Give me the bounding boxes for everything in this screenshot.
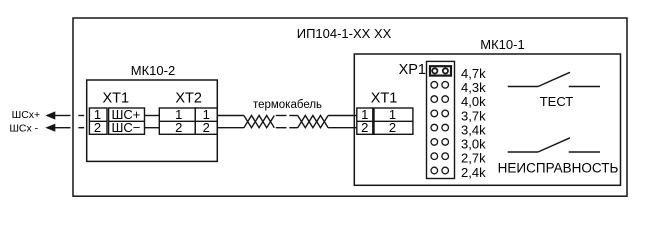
svg-text:2: 2: [361, 120, 368, 135]
module box МК10-2: [87, 80, 218, 161]
jumper header block ХР1: [427, 61, 455, 178]
dashed cable break top: [276, 115, 287, 117]
connector ХТ2 left column: [159, 108, 195, 134]
svg-text:3,0k: 3,0k: [461, 137, 486, 152]
switch НЕИСПРАВНОСТЬ left contact: [508, 151, 538, 153]
switch ТЕСТ left contact: [508, 86, 538, 88]
header pins row 8: [431, 167, 438, 174]
wire ШС+ to ХТ2 row1: [145, 115, 160, 117]
twisted pair section 2 line A: [298, 116, 328, 128]
svg-text:2: 2: [203, 120, 210, 135]
header pins row 2: [431, 82, 438, 89]
switch ТЕСТ right contact: [569, 86, 600, 88]
twisted pair section 1 line B: [244, 116, 274, 128]
svg-text:2: 2: [175, 120, 182, 135]
wire ШСх+ boundary dash: [78, 115, 84, 117]
svg-text:3,7k: 3,7k: [461, 108, 486, 123]
svg-text:2,7k: 2,7k: [461, 151, 486, 166]
svg-text:4,3k: 4,3k: [461, 80, 486, 95]
header pins row 3: [431, 96, 438, 103]
outer enclosure box ИП104-1-XX XX: [73, 18, 627, 196]
svg-text:ХТ1: ХТ1: [371, 90, 398, 106]
connector ХТ2 right column: [195, 108, 217, 134]
svg-text:МК10-1: МК10-1: [480, 37, 524, 52]
svg-text:3,4k: 3,4k: [461, 122, 486, 137]
svg-text:2,4k: 2,4k: [461, 165, 486, 180]
svg-text:2: 2: [94, 120, 101, 135]
header pins row 4: [431, 110, 438, 117]
connector ХТ1 pin-number column (МК10-2): [89, 108, 107, 134]
dashed cable break bottom: [276, 127, 287, 129]
arrowhead ШСх+: [45, 111, 55, 119]
svg-text:4,0k: 4,0k: [461, 94, 486, 109]
connector ХТ1 ШС column (МК10-2): [109, 108, 145, 134]
svg-text:ХТ2: ХТ2: [175, 90, 202, 106]
switch ТЕСТ lever: [538, 72, 570, 86]
switch НЕИСПРАВНОСТЬ right contact: [569, 151, 600, 153]
svg-text:ШСх -: ШСх -: [9, 123, 38, 135]
wire cable to ХТ1 МК10-1 top: [328, 115, 357, 117]
twisted pair section 2 line B: [298, 116, 328, 128]
wire ШСх+ arrow line: [55, 115, 71, 117]
wire ШС− to ХТ2 row2: [145, 127, 160, 129]
twisted pair section 1 line A: [244, 116, 274, 128]
svg-text:4,7k: 4,7k: [461, 66, 486, 81]
svg-text:ТЕСТ: ТЕСТ: [540, 94, 574, 109]
wire cable to ХТ1 МК10-1 bottom: [328, 127, 357, 129]
header pins row 6: [431, 139, 438, 146]
svg-text:ИП104-1-ХХ ХХ: ИП104-1-ХХ ХХ: [297, 26, 392, 41]
svg-text:ХР1: ХР1: [399, 62, 426, 78]
svg-text:термокабель: термокабель: [253, 99, 322, 111]
svg-text:2: 2: [389, 120, 396, 135]
svg-text:ХТ1: ХТ1: [103, 90, 130, 106]
connector ХТ1 МК10-1 right column: [374, 108, 413, 134]
wire ШСх - arrow line: [55, 127, 71, 129]
wire ХТ2 to cable bottom: [217, 127, 244, 129]
svg-text:НЕИСПРАВНОСТЬ: НЕИСПРАВНОСТЬ: [498, 160, 619, 175]
header pins row 5: [431, 124, 438, 131]
module box МК10-1: [354, 54, 620, 185]
wire ХТ2 to cable top: [217, 115, 244, 117]
arrowhead ШСх -: [45, 124, 55, 132]
svg-text:МК10-2: МК10-2: [131, 63, 175, 78]
connector ХТ1 МК10-1 left column: [357, 108, 373, 134]
svg-text:ШСх+: ШСх+: [12, 109, 41, 121]
jumper installed on position 1: [430, 66, 451, 75]
switch НЕИСПРАВНОСТЬ lever: [538, 138, 570, 152]
header pins row 7: [431, 153, 438, 160]
svg-text:ШС−: ШС−: [112, 120, 141, 135]
wire ШСх - boundary dash: [78, 127, 84, 129]
